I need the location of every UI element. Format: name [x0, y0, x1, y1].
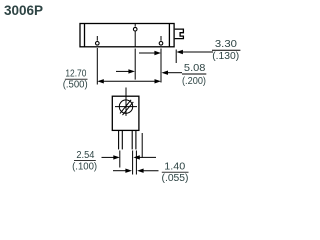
svg-text:3006P: 3006P — [4, 3, 43, 18]
svg-text:5.08: 5.08 — [184, 62, 206, 74]
svg-text:(.500): (.500) — [63, 79, 88, 90]
svg-text:(.100): (.100) — [72, 161, 97, 172]
svg-text:(.200): (.200) — [182, 75, 206, 87]
svg-text:1.40: 1.40 — [164, 162, 185, 173]
svg-text:12.70: 12.70 — [65, 68, 86, 79]
svg-text:(.055): (.055) — [162, 173, 189, 184]
svg-text:3.30: 3.30 — [215, 38, 237, 50]
svg-text:2.54: 2.54 — [76, 150, 94, 161]
svg-text:(.130): (.130) — [212, 50, 239, 62]
